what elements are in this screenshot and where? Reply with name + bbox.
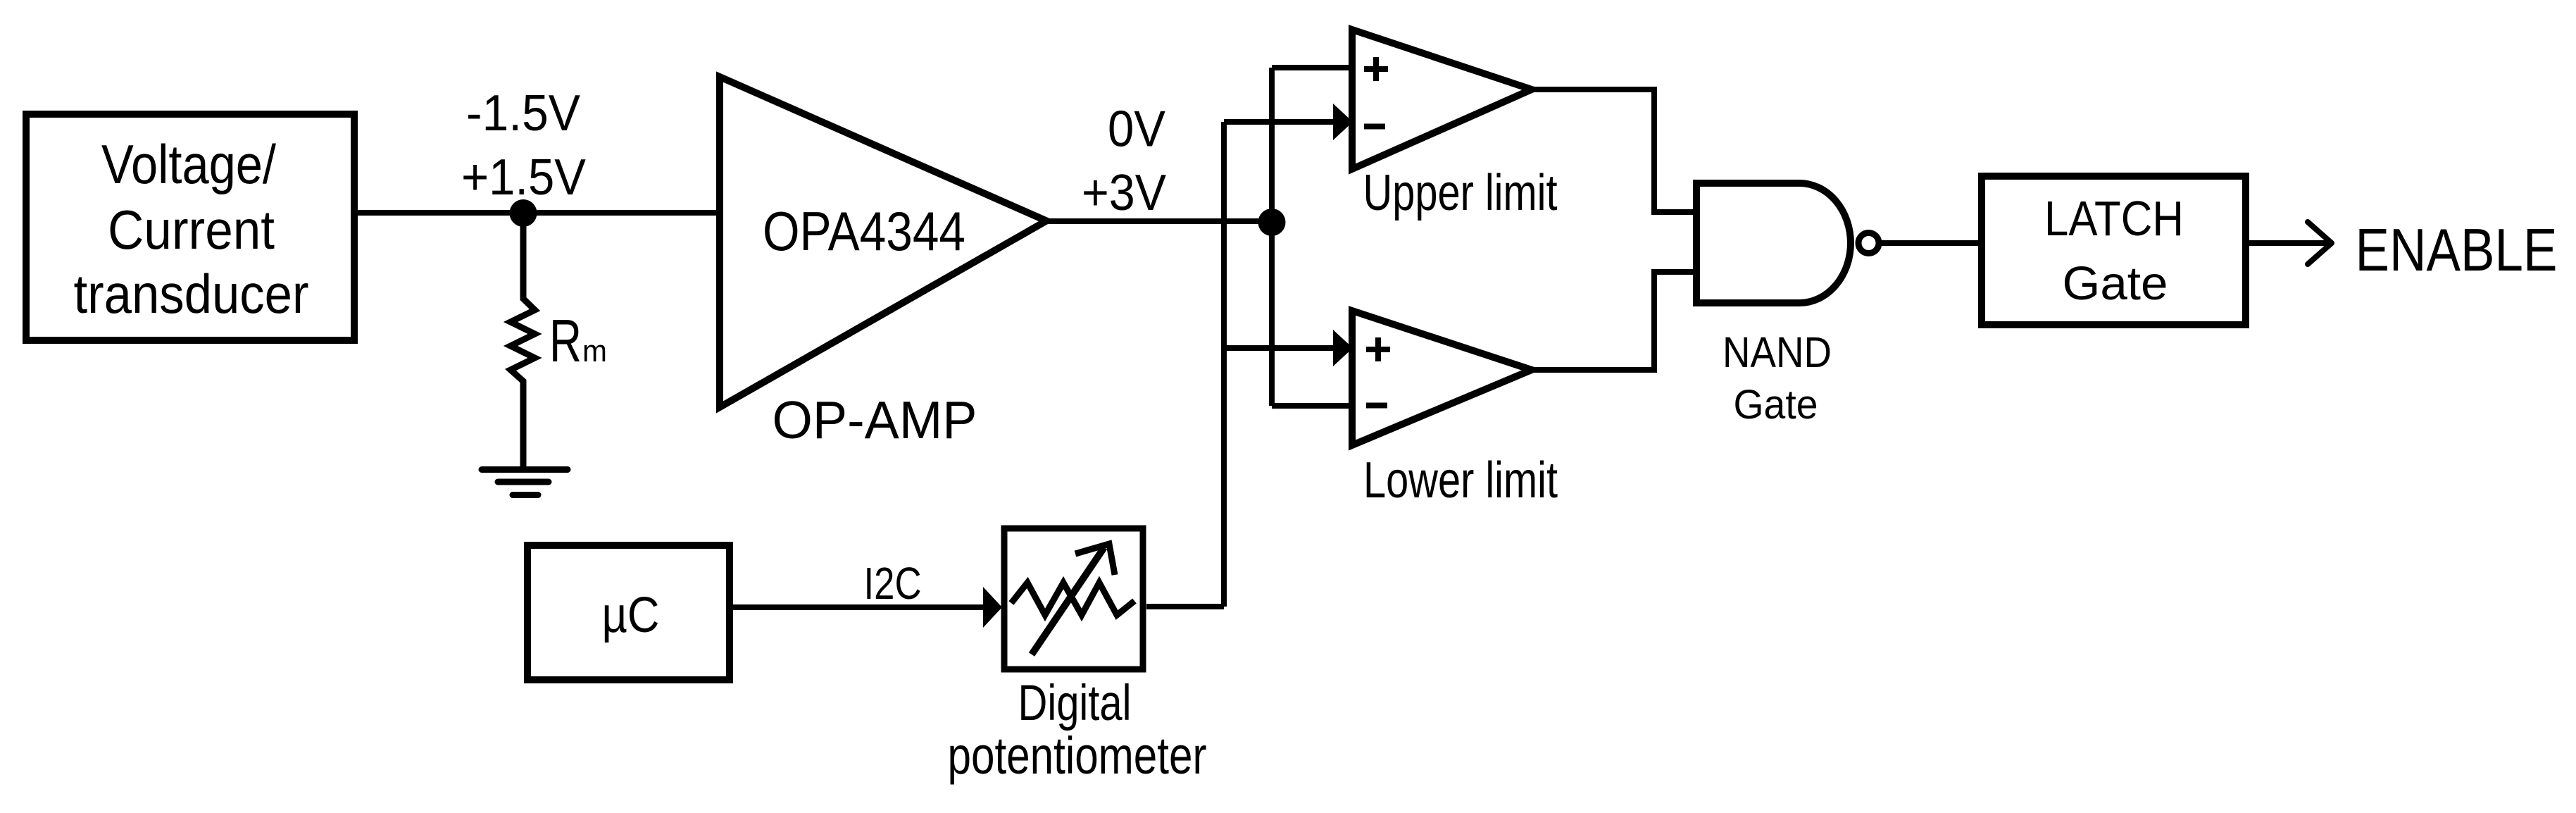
svg-text:I2C: I2C bbox=[864, 558, 922, 609]
plus symbol upper comparator bbox=[1364, 57, 1388, 81]
wire potentiometer distribution vertical bbox=[1221, 122, 1227, 607]
wire op-amp output bbox=[1046, 218, 1272, 224]
wire potentiometer output to vertical bbox=[1146, 604, 1224, 609]
minus symbol lower comparator bbox=[1366, 403, 1387, 409]
resistor Rm (vertical zigzag with leads) bbox=[511, 213, 535, 470]
wire upper comparator output to NAND top input bbox=[1532, 89, 1700, 212]
comparator Upper limit bbox=[1352, 30, 1532, 169]
wire NAND output to latch bbox=[1881, 240, 1982, 246]
wire to upper comparator + input bbox=[1272, 65, 1352, 70]
block microcontroller uC bbox=[527, 545, 730, 680]
wire transducer output to op-amp input bbox=[358, 210, 720, 216]
svg-text:Gate: Gate bbox=[1734, 382, 1818, 428]
svg-text:m: m bbox=[582, 334, 607, 368]
plus symbol lower comparator bbox=[1366, 337, 1390, 361]
arrowhead at potentiometer input bbox=[983, 587, 1002, 628]
potentiometer wiper arrow shaft bbox=[1032, 547, 1104, 654]
svg-text:OPA4344: OPA4344 bbox=[763, 200, 965, 262]
potentiometer resistor zigzag bbox=[1011, 583, 1134, 615]
svg-text:potentiometer: potentiometer bbox=[948, 726, 1207, 785]
wire to upper comparator - input bbox=[1224, 119, 1334, 125]
minus symbol upper comparator bbox=[1364, 124, 1385, 130]
arrowhead at upper comparator - input bbox=[1333, 104, 1353, 140]
svg-text:NAND: NAND bbox=[1722, 328, 1832, 377]
comparator Lower limit bbox=[1352, 311, 1532, 445]
svg-text:OP-AMP: OP-AMP bbox=[773, 390, 977, 449]
block digital potentiometer bbox=[1004, 528, 1143, 669]
svg-text:R: R bbox=[549, 308, 582, 375]
ground bbox=[482, 470, 568, 495]
block LATCH Gate bbox=[1982, 176, 2246, 325]
svg-text:Gate: Gate bbox=[2063, 258, 2168, 310]
svg-text:-1.5V: -1.5V bbox=[466, 85, 581, 142]
arrowhead enable output bbox=[2308, 222, 2332, 264]
wire to lower comparator + input bbox=[1224, 345, 1334, 351]
svg-text:transducer: transducer bbox=[74, 263, 309, 325]
wire latch output bbox=[2249, 240, 2327, 246]
wire signal distribution vertical bbox=[1269, 68, 1275, 406]
svg-text:Digital: Digital bbox=[1018, 676, 1132, 731]
node junction dot at Rm tap bbox=[510, 199, 537, 227]
wire uC to potentiometer (I2C bus) bbox=[733, 604, 984, 610]
svg-text:ENABLE: ENABLE bbox=[2356, 217, 2558, 284]
op-amp U1 OPA4344 bbox=[720, 77, 1046, 407]
wire lower comparator output to NAND bottom input bbox=[1532, 272, 1700, 370]
svg-text:+1.5V: +1.5V bbox=[461, 149, 587, 206]
potentiometer wiper arrowhead bbox=[1075, 544, 1115, 575]
NAND inverter bubble bbox=[1858, 233, 1879, 254]
svg-text:µC: µC bbox=[602, 588, 660, 643]
svg-text:Current: Current bbox=[108, 199, 275, 261]
svg-text:+3V: +3V bbox=[1082, 164, 1167, 221]
svg-text:LATCH: LATCH bbox=[2044, 191, 2184, 246]
arrowhead at lower comparator + input bbox=[1333, 330, 1353, 366]
wire to lower comparator - input bbox=[1272, 403, 1352, 409]
svg-text:Lower limit: Lower limit bbox=[1363, 452, 1558, 509]
node junction dot at op-amp output bbox=[1258, 209, 1286, 236]
NAND gate body bbox=[1696, 183, 1851, 303]
svg-text:Upper limit: Upper limit bbox=[1363, 164, 1558, 221]
svg-text:0V: 0V bbox=[1108, 101, 1166, 158]
svg-text:Voltage/: Voltage/ bbox=[101, 133, 276, 195]
block Voltage/Current transducer bbox=[26, 114, 354, 340]
